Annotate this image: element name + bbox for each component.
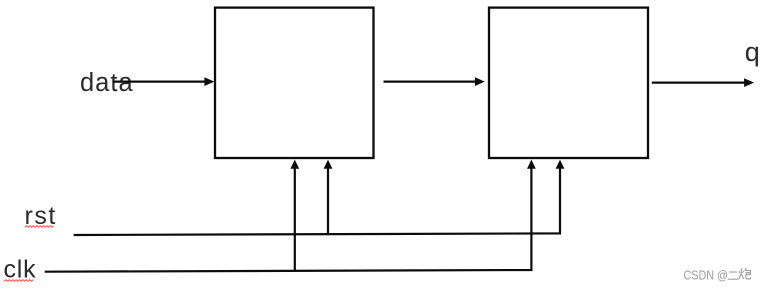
flip-flop box U2 [489, 8, 648, 158]
rst label spellcheck squiggle [25, 226, 54, 228]
node q label [745, 37, 760, 67]
wire rst branch riser into U1 [324, 160, 333, 235]
flip-flop box U1 [215, 8, 374, 158]
watermark CSDN @二炮 [684, 267, 751, 282]
wire rst net horizontal run with riser into U2 [74, 160, 565, 235]
wire data input arrow into U1 [113, 77, 214, 86]
node clk label [4, 256, 37, 284]
svg-text:data: data [80, 69, 134, 97]
wire U1 output to U2 input arrow [384, 77, 485, 86]
svg-text:q: q [745, 37, 760, 67]
clk label spellcheck squiggle [4, 280, 33, 282]
node rst label [25, 202, 57, 230]
svg-text:CSDN @: CSDN @ [684, 267, 729, 282]
wire clk branch riser into U1 [290, 160, 299, 271]
wire clk net horizontal run with riser into U2 [45, 160, 536, 272]
node data label [80, 69, 134, 97]
svg-text:clk: clk [4, 256, 37, 284]
wire U2 output arrow to q [652, 78, 754, 87]
